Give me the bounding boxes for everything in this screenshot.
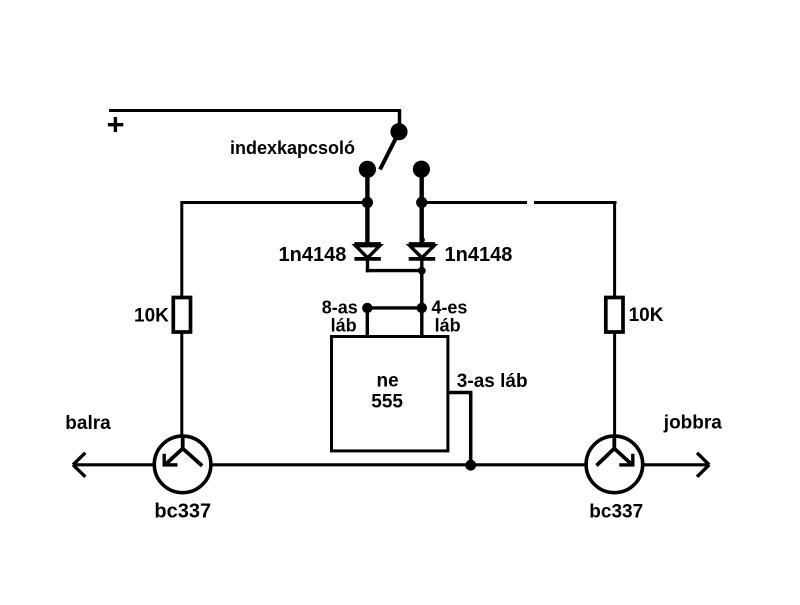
svg-text:3-as láb: 3-as láb xyxy=(457,371,528,392)
svg-text:10K: 10K xyxy=(629,305,664,326)
wire left throw down to diode D1 xyxy=(365,169,369,244)
switch S1 left throw contact dot xyxy=(359,161,376,178)
wire output rail middle segment xyxy=(210,463,587,466)
transistor Q1 circle xyxy=(154,436,211,493)
svg-text:4-es: 4-es xyxy=(431,297,467,317)
op-amp U1 ne555 box xyxy=(332,337,448,451)
junction node left throw / mid rail xyxy=(362,197,373,208)
wire output rail left segment xyxy=(73,463,155,466)
wire output rail right segment xyxy=(642,463,709,466)
label pin8 8-as lab xyxy=(322,297,358,335)
wire left branch down to R1 xyxy=(180,201,183,298)
svg-text:8-as: 8-as xyxy=(322,297,358,317)
arrow jobbra right xyxy=(697,453,709,477)
transistor Q2 circle xyxy=(586,436,643,493)
svg-text:láb: láb xyxy=(435,315,461,335)
wire pin8 drop to IC top xyxy=(366,308,369,338)
svg-text:bc337: bc337 xyxy=(589,502,643,523)
junction node right throw / mid rail xyxy=(416,197,427,208)
wire mid rail right segment b xyxy=(534,201,617,204)
resistor R1 10K xyxy=(173,298,190,333)
svg-text:jobbra: jobbra xyxy=(663,412,722,433)
transistor Q2 internals xyxy=(597,436,635,467)
wire D1 cathode down xyxy=(366,259,369,272)
wire R1 to Q1 collector xyxy=(180,332,183,437)
svg-text:1n4148: 1n4148 xyxy=(445,244,513,266)
wire drop from supply to switch common xyxy=(398,110,402,128)
switch S1 lever xyxy=(380,135,398,170)
wire pin3 down to output rail xyxy=(469,393,473,466)
label pin4 4-es lab xyxy=(431,297,467,335)
junction node pin3 on rail xyxy=(465,460,476,471)
svg-text:555: 555 xyxy=(371,391,403,412)
svg-text:láb: láb xyxy=(331,315,357,335)
wire nub artifact on D2 stub xyxy=(423,238,425,241)
junction node pin8 xyxy=(362,303,372,313)
svg-text:indexkapcsoló: indexkapcsoló xyxy=(230,138,355,158)
wire top supply horizontal xyxy=(109,109,401,112)
resistor R2 10K xyxy=(606,298,623,333)
wire pin8 to pin4 xyxy=(367,306,422,309)
wire mid rail left segment xyxy=(181,201,367,204)
plus supply symbol xyxy=(108,117,123,132)
wire right throw down to diode D2 xyxy=(420,169,424,244)
switch S1 right throw contact dot xyxy=(413,161,430,178)
wire mid rail right segment a xyxy=(422,201,527,204)
diode D1 1n4148 xyxy=(354,244,381,259)
wire R2 to Q2 collector xyxy=(613,332,616,437)
junction node diode cathodes xyxy=(418,267,426,275)
arrow balra left xyxy=(73,453,85,477)
diode D2 1n4148 xyxy=(409,244,436,259)
label ne 555 xyxy=(371,370,403,412)
wire pin4 drop to IC top xyxy=(420,308,423,338)
svg-text:1n4148: 1n4148 xyxy=(279,244,347,266)
svg-text:balra: balra xyxy=(65,413,111,434)
junction node pin4 xyxy=(417,303,427,313)
wire right branch down to R2 xyxy=(613,201,616,298)
switch S1 common contact dot xyxy=(390,123,407,140)
svg-text:ne: ne xyxy=(377,370,399,391)
wire pin3 stub right xyxy=(448,391,472,395)
wire D1 cathode over to D2 cathode xyxy=(366,269,422,272)
svg-text:bc337: bc337 xyxy=(154,501,211,523)
transistor Q1 internals xyxy=(163,436,203,467)
svg-text:10K: 10K xyxy=(134,306,169,327)
wire D2 cathode down to pin4 node xyxy=(420,259,423,308)
